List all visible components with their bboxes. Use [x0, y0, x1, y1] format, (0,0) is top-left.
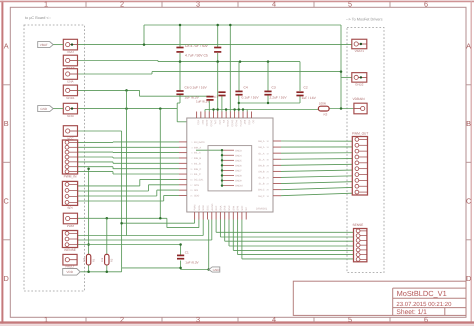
svg-text:4.7uF / 50V C5: 4.7uF / 50V C5: [185, 53, 208, 57]
svg-text:GVDD: GVDD: [230, 120, 233, 127]
connector SENSE: [353, 223, 367, 262]
svg-text:GND: GND: [213, 268, 221, 272]
svg-text:FAULT: FAULT: [65, 264, 74, 268]
svg-text:10k: 10k: [101, 257, 104, 262]
wire VBAT feed to IC pin: [229, 25, 231, 112]
svg-text:BST: BST: [243, 120, 246, 125]
svg-text:C3: C3: [272, 85, 276, 89]
wire left bus C vertical: [159, 109, 161, 219]
svg-text:GH_C: GH_C: [258, 189, 265, 192]
svg-text:PWM_OUT: PWM_OUT: [352, 132, 368, 136]
wire SPI bundle to IC left pins: [78, 179, 180, 201]
svg-text:SENSE: SENSE: [353, 223, 364, 227]
connector PWM_IN: [62, 140, 77, 174]
svg-text:+BAT: +BAT: [67, 50, 75, 54]
junction R1 isense: [87, 243, 90, 246]
junction top bus dots: [212, 102, 269, 111]
junction R2 top: [106, 217, 109, 220]
svg-text:SOA: SOA: [198, 205, 201, 210]
wire GND1 pad to cap C10 top: [78, 90, 211, 96]
wire left bus B vertical: [126, 90, 128, 235]
svg-text:DVDD: DVDD: [209, 120, 212, 127]
wire ISENSE1 to IC: [78, 220, 204, 236]
svg-text:GND3: GND3: [235, 149, 242, 152]
connector pad GND: [63, 103, 77, 114]
capacitor C8: [176, 44, 208, 52]
svg-text:C7: C7: [214, 95, 218, 99]
svg-text:3: 3: [196, 0, 200, 8]
svg-text:CP2: CP2: [218, 120, 221, 125]
wire GND flag stem: [181, 220, 209, 270]
wire cap C5 to rails: [217, 25, 219, 62]
svg-text:C1: C1: [185, 251, 189, 255]
svg-text:SH_A: SH_A: [258, 146, 265, 149]
junction VDD R2: [106, 271, 109, 274]
svg-text:R3: R3: [324, 113, 328, 117]
svg-text:GND: GND: [40, 107, 48, 111]
svg-text:GND8: GND8: [235, 175, 242, 178]
junction GND branch 1: [125, 107, 128, 110]
svg-text:PWM: PWM: [67, 224, 75, 228]
title block outline: [293, 281, 466, 315]
wire ISENSE2 to IC: [78, 220, 212, 241]
resistor R1: [83, 254, 95, 265]
svg-text:GND1: GND1: [66, 96, 75, 100]
svg-text:0.1uF / 16V: 0.1uF / 16V: [242, 96, 260, 100]
svg-text:23.07.2015 00:21:20: 23.07.2015 00:21:20: [396, 301, 452, 308]
connector pad VCC: [63, 126, 77, 137]
connector pad VBAT1: [352, 39, 367, 49]
wire R2 vertical: [106, 218, 108, 254]
ground flag bottom center: [209, 267, 220, 272]
junction C8 top: [179, 24, 182, 27]
svg-text:SPA: SPA: [232, 205, 235, 210]
wire VDRAIN drop: [340, 25, 342, 109]
svg-text:VDD: VDD: [197, 120, 200, 125]
svg-text:EN_GATE: EN_GATE: [194, 141, 205, 144]
svg-text:C: C: [466, 197, 471, 206]
wire ISENSE3 to C1: [78, 244, 181, 246]
capacitor C10: [206, 95, 218, 100]
junction VDRAIN: [340, 107, 343, 110]
svg-text:ENA: ENA: [67, 80, 73, 84]
svg-text:SDO: SDO: [194, 195, 199, 198]
svg-text:4: 4: [272, 315, 276, 324]
svg-text:REF: REF: [215, 205, 218, 210]
svg-text:to µC Board <--: to µC Board <--: [25, 16, 52, 20]
svg-text:1uF / 16V: 1uF / 16V: [302, 96, 317, 100]
svg-text:SNC: SNC: [228, 205, 231, 210]
svg-text:GND4: GND4: [235, 154, 242, 157]
capacitor C4: [235, 85, 259, 99]
wire inner gnd feed: [196, 149, 222, 151]
connector PWM_OUT: [352, 132, 368, 195]
junction C5 top: [216, 24, 219, 27]
junction C1 bottom: [179, 267, 182, 270]
wire R1 vertical: [88, 169, 90, 255]
junction GND rail C5: [216, 60, 219, 63]
junction bus C join: [159, 217, 162, 220]
svg-text:VDRAIN: VDRAIN: [353, 97, 366, 101]
U1 inner ground block: [208, 146, 252, 191]
svg-text:1uF /6.3V: 1uF /6.3V: [196, 100, 210, 104]
svg-text:SL_A: SL_A: [259, 158, 265, 161]
svg-text:MoStBLDC_V1: MoStBLDC_V1: [397, 289, 447, 298]
wire PWM_IN bundle to IC left pins: [78, 142, 180, 174]
junction GND flag: [207, 268, 210, 271]
junction GND rail C8: [179, 60, 182, 63]
svg-text:5: 5: [348, 315, 352, 324]
svg-text:GND7: GND7: [235, 170, 242, 173]
U1 bottom pins: [194, 203, 249, 219]
capacitor C7: [196, 92, 226, 103]
svg-text:SNA: SNA: [219, 205, 222, 210]
resistor R3: [318, 101, 329, 116]
svg-text:A: A: [4, 42, 9, 51]
svg-text:SOC: SOC: [207, 205, 210, 210]
svg-text:6: 6: [424, 0, 428, 8]
svg-text:R1: R1: [92, 258, 95, 262]
junction R1 top signal: [87, 167, 90, 170]
wire VBAT top rail: [144, 25, 341, 45]
svg-text:C: C: [4, 197, 9, 206]
svg-text:INL_B: INL_B: [194, 162, 201, 165]
svg-text:100R: 100R: [319, 101, 327, 105]
svg-text:2.2uF / 16V: 2.2uF / 16V: [270, 96, 288, 100]
wire VDD rail: [80, 265, 121, 272]
wire SENSE staircase bundle: [216, 220, 353, 259]
svg-text:INH_B: INH_B: [194, 157, 201, 160]
svg-text:2: 2: [120, 0, 124, 8]
dashed box to uC Board: [24, 25, 85, 291]
svg-text:GL_A: GL_A: [258, 152, 265, 155]
svg-text:B: B: [466, 119, 471, 128]
svg-text:SDI: SDI: [194, 189, 198, 192]
svg-text:GND10: GND10: [235, 185, 244, 188]
junction bus A: [120, 222, 123, 225]
connector pad +BAT: [63, 39, 77, 50]
svg-text:INL_C: INL_C: [194, 173, 201, 176]
svg-text:SH_B: SH_B: [258, 171, 265, 174]
connector SPI: [62, 181, 77, 205]
wire C1 vertical: [180, 245, 182, 270]
supply flag VBAT: [38, 42, 54, 48]
wire cap C8 to rails: [179, 25, 181, 62]
svg-text:SCS: SCS: [194, 184, 199, 187]
svg-text:--> To MosFet Drivers: --> To MosFet Drivers: [346, 18, 383, 22]
connector ISENSE: [62, 231, 77, 248]
connector pad ENA: [63, 69, 77, 80]
svg-text:D: D: [466, 274, 471, 283]
svg-text:5: 5: [348, 0, 352, 8]
svg-text:C4: C4: [244, 85, 248, 89]
svg-text:WAKE: WAKE: [66, 66, 75, 70]
svg-text:PVDD: PVDD: [235, 120, 238, 127]
junction VDD R1: [87, 271, 90, 274]
frame row letters A-D left and right: [4, 42, 472, 284]
svg-text:C2: C2: [304, 86, 308, 90]
svg-text:SPI: SPI: [67, 206, 72, 210]
capacitor C6: [176, 85, 207, 99]
svg-text:GH_A: GH_A: [258, 140, 265, 143]
wire left bus A vertical: [78, 131, 181, 268]
supply flag VDD: [63, 269, 80, 276]
connector pad PWM: [63, 213, 77, 224]
resistor R2: [101, 254, 113, 265]
svg-text:GND9: GND9: [235, 180, 242, 183]
svg-text:GL_B: GL_B: [258, 177, 265, 180]
svg-text:3: 3: [196, 315, 200, 324]
dashed box To MosFet Drivers: [347, 28, 384, 273]
svg-text:SL_B: SL_B: [259, 183, 265, 186]
supply flag GND left: [38, 106, 54, 112]
svg-text:Sheet: 1/1: Sheet: 1/1: [396, 309, 427, 316]
U1 right pins: [258, 140, 281, 198]
svg-text:DC_CAL: DC_CAL: [194, 179, 204, 182]
svg-text:NC: NC: [245, 207, 248, 211]
junction C1 top: [179, 243, 182, 246]
svg-text:DRV8301: DRV8301: [256, 208, 268, 211]
svg-text:VBAT1: VBAT1: [355, 49, 365, 53]
wire GND rail: [158, 62, 300, 91]
svg-text:VREG: VREG: [226, 120, 229, 127]
connector pad FAULT: [63, 254, 77, 268]
svg-text:SOB: SOB: [202, 205, 205, 210]
svg-text:GND5: GND5: [235, 159, 242, 162]
U1 left pins: [179, 141, 205, 198]
connector pad GND2: [352, 73, 367, 83]
U1 top pins: [197, 112, 255, 127]
connector pad GND1: [63, 85, 77, 96]
svg-text:A: A: [466, 42, 471, 51]
svg-text:REF: REF: [201, 120, 204, 125]
svg-text:C8 4.7uF / 50V: C8 4.7uF / 50V: [185, 44, 209, 48]
wire PWM pad line with pullup R2: [78, 218, 199, 227]
svg-text:PWM_IN: PWM_IN: [64, 175, 77, 179]
svg-text:SNB: SNB: [224, 205, 227, 210]
connector pad WAKE: [63, 55, 77, 66]
wire IC top pin verticals: [205, 62, 318, 112]
wire PWM_OUT bundle: [281, 141, 352, 196]
svg-text:ISENSE: ISENSE: [64, 248, 76, 252]
svg-text:B: B: [4, 119, 9, 128]
junction VBAT rail: [143, 43, 146, 46]
svg-text:CP1: CP1: [214, 120, 217, 125]
svg-text:INL_A: INL_A: [194, 152, 201, 155]
svg-text:2: 2: [120, 315, 124, 324]
svg-text:AVDD: AVDD: [205, 120, 208, 127]
svg-text:EN: EN: [222, 120, 225, 124]
svg-text:1: 1: [44, 315, 48, 324]
connector pad VDRAIN: [353, 97, 368, 114]
capacitor C5: [185, 48, 221, 58]
svg-text:R2: R2: [111, 258, 114, 262]
svg-text:1: 1: [44, 0, 48, 8]
junction GND branch 2: [159, 107, 162, 110]
svg-text:GND: GND: [67, 114, 75, 118]
svg-text:VBAT: VBAT: [40, 43, 48, 47]
svg-text:SPC: SPC: [241, 205, 244, 210]
capacitor C1: [177, 251, 200, 265]
junction GND rail C3: [267, 60, 270, 63]
capacitor C3: [264, 85, 287, 99]
svg-text:VDS: VDS: [247, 120, 250, 125]
svg-text:PWM: PWM: [194, 205, 197, 211]
svg-text:4: 4: [272, 0, 276, 8]
svg-text:VCPH: VCPH: [239, 120, 242, 127]
junction VBAT feed: [229, 24, 232, 27]
svg-text:D: D: [4, 274, 9, 283]
wire VBAT from +BAT pad to VBAT1 pad: [78, 44, 352, 46]
svg-text:INH_A: INH_A: [194, 146, 201, 149]
capacitor C2: [296, 86, 316, 100]
svg-text:GND2: GND2: [355, 82, 364, 86]
svg-text:10k: 10k: [83, 257, 86, 262]
op-amp gate driver U1 body: [187, 118, 273, 212]
svg-text:SPB: SPB: [237, 205, 240, 210]
svg-text:SH_C: SH_C: [258, 195, 265, 198]
wire ENA pad to GND2: [78, 72, 352, 78]
wire R3 line to VDRAIN: [318, 109, 354, 110]
svg-text:GH_B: GH_B: [258, 164, 265, 167]
svg-text:C6 0.1uF / 16V: C6 0.1uF / 16V: [185, 85, 208, 89]
svg-text:VDD: VDD: [66, 270, 73, 274]
wire WAKE pad to GND rail: [78, 61, 159, 62]
wire cap C6 bottom to corner: [177, 62, 180, 103]
junction GND1 branch: [125, 89, 128, 92]
svg-text:INH_C: INH_C: [194, 168, 201, 171]
svg-text:OD: OD: [252, 120, 255, 124]
svg-text:6: 6: [424, 315, 428, 324]
svg-text:GND6: GND6: [235, 164, 242, 167]
svg-text:AGND: AGND: [211, 203, 214, 210]
wire IC bottom pin1 to bus A: [122, 220, 195, 224]
wire GND pad to IC: [78, 103, 187, 122]
junction GND2 drop: [340, 70, 343, 73]
svg-text:1uF /6.3V: 1uF /6.3V: [185, 261, 199, 265]
